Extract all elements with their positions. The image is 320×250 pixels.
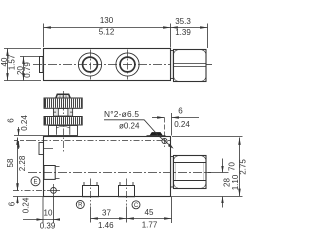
- washer between body and hex (front view): [171, 157, 174, 188]
- port E square: [44, 166, 60, 180]
- port label C: [132, 201, 140, 209]
- dimension 6 / 0.24 (top left): [14, 127, 30, 149]
- svg-text:70: 70: [228, 162, 237, 171]
- dimension 28 / 1.10: [207, 159, 229, 208]
- port label R: [76, 201, 84, 209]
- svg-text:6: 6: [178, 107, 183, 116]
- svg-text:2.75: 2.75: [239, 159, 248, 175]
- leader N2-6.5: [104, 120, 174, 149]
- knob lower knurled disk: [44, 117, 82, 126]
- knob upper knurled disk: [44, 98, 82, 108]
- dimension 37 / 1.46: [91, 207, 127, 223]
- svg-text:2.28: 2.28: [18, 155, 27, 171]
- svg-text:0.39: 0.39: [40, 222, 56, 231]
- knob centerline: [63, 91, 65, 152]
- mounting hole 2: [162, 118, 167, 148]
- svg-text:1.39: 1.39: [175, 28, 191, 37]
- svg-text:1.57: 1.57: [7, 54, 16, 70]
- hex end fitting (front view): [174, 156, 207, 189]
- top face extension line to right: [172, 136, 243, 138]
- svg-text:6: 6: [7, 118, 16, 123]
- knob cap: [56, 94, 70, 98]
- port C (bottom): [119, 179, 135, 206]
- hidden hole axis line (front view): [30, 140, 170, 142]
- dimension 20 / 0.79: [20, 57, 39, 81]
- dimension 58 / 2.28: [13, 138, 47, 191]
- 6 top-left arrows: [17, 129, 19, 136]
- valve body (front view): [44, 137, 171, 197]
- svg-text:6: 6: [8, 201, 17, 206]
- svg-text:ø0.24: ø0.24: [119, 122, 140, 131]
- port hole 1 (top view) circle: [78, 50, 101, 80]
- arrowheads drawn manually for small dims: [16, 129, 223, 221]
- knob seat line: [14, 135, 49, 137]
- svg-text:37: 37: [102, 208, 111, 217]
- dimension 70 / 2.75: [171, 138, 243, 197]
- hidden line from boss: [44, 148, 54, 150]
- dimension 10 / 0.39: [23, 197, 60, 223]
- name plate on top: [147, 132, 166, 135]
- valve body (top view): [44, 49, 171, 81]
- dimension 6 / 0.24 (bottom left): [13, 184, 43, 204]
- svg-text:5.12: 5.12: [99, 28, 115, 37]
- svg-text:N°2-ø6.5: N°2-ø6.5: [104, 109, 139, 119]
- svg-text:10: 10: [44, 209, 53, 218]
- svg-text:1.77: 1.77: [142, 221, 158, 230]
- svg-text:0.24: 0.24: [22, 197, 31, 213]
- 28 arrows: [221, 166, 223, 173]
- port R (bottom): [83, 179, 99, 206]
- main centerline (front view): [28, 172, 211, 174]
- dimension 45 / 1.77: [127, 197, 172, 223]
- knob bottom hex nut: [49, 125, 78, 136]
- mounting hole 1: [47, 184, 60, 197]
- svg-text:28: 28: [222, 178, 231, 187]
- 6 bottom-left arrows: [16, 184, 18, 191]
- horizontal centerline (top view): [33, 64, 171, 66]
- svg-text:0.24: 0.24: [174, 120, 190, 129]
- svg-text:0.24: 0.24: [20, 115, 29, 131]
- port hole 2 (top view) circle: [116, 50, 139, 80]
- left boss (top view): [40, 57, 44, 73]
- svg-text:58: 58: [6, 158, 15, 167]
- svg-text:45: 45: [145, 208, 154, 217]
- svg-text:1.46: 1.46: [98, 221, 114, 230]
- svg-text:R: R: [78, 203, 83, 209]
- svg-text:1.10: 1.10: [231, 174, 240, 190]
- svg-text:C: C: [134, 203, 139, 209]
- dimension 40 / 1.57: [4, 49, 41, 81]
- svg-text:35.3: 35.3: [175, 17, 191, 26]
- port label E: [31, 177, 140, 209]
- dimension 35.3 / 1.39: [171, 24, 208, 49]
- 10 arrows: [37, 218, 44, 220]
- svg-text:0.79: 0.79: [23, 62, 32, 78]
- left boss (front view): [39, 143, 44, 155]
- dimension 130 / 5.12: [44, 24, 171, 48]
- hex end fitting (top view): [174, 50, 207, 82]
- washer between body and hex (top view): [171, 51, 174, 79]
- svg-text:E: E: [33, 179, 37, 185]
- dimension 6 / 0.24 (top right): [152, 113, 199, 136]
- knob middle hex: [54, 108, 73, 116]
- svg-text:130: 130: [100, 16, 114, 25]
